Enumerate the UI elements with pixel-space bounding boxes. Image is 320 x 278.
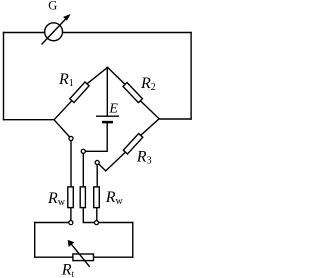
resistor R1 — [70, 82, 89, 103]
resistor R2 — [123, 82, 142, 102]
wire battery bottom lead — [83, 122, 107, 151]
node a terminal — [69, 136, 73, 140]
wire bottom loop right edge — [132, 223, 134, 258]
wire bottom loop top-right segment — [97, 222, 133, 224]
wire Rw1 bottom lead — [70, 206, 72, 223]
node e terminal — [94, 221, 98, 225]
wire bottom loop bottom edge (through Rt) — [35, 256, 133, 258]
resistor R3 — [123, 134, 142, 154]
node b terminal — [81, 149, 85, 153]
wire bottom loop top-left segment — [35, 222, 71, 224]
wire node c to Rw3 — [96, 163, 98, 190]
wire left vertical — [3, 33, 5, 120]
wire node b to Rw2 — [82, 151, 84, 189]
wire right vertical — [190, 33, 192, 120]
svg-text:E: E — [108, 102, 118, 117]
wire R3 diagonal — [97, 119, 159, 171]
wire bridge arm left (through R1) — [54, 67, 108, 119]
resistor Rw1 — [68, 187, 74, 208]
wire Rw2 bottom lead bent — [83, 206, 96, 223]
wire top-right horizontal — [63, 32, 192, 34]
node d terminal — [69, 221, 73, 225]
battery E — [96, 116, 119, 122]
wire node a to Rw1 — [70, 139, 72, 190]
wire bridge-to-right horizontal — [159, 118, 191, 120]
resistor Rw3 — [94, 187, 100, 208]
rheostat Rt — [68, 240, 94, 267]
resistor Rw2 — [80, 187, 85, 208]
galvanometer G — [42, 14, 71, 45]
wire top-left horizontal — [4, 32, 45, 34]
wire Rw3 bottom lead — [96, 206, 98, 223]
wire left vertex to node a — [54, 120, 71, 139]
svg-text:G: G — [48, 0, 57, 13]
node c terminal — [95, 160, 99, 164]
wire bridge arm right (through R2) — [108, 67, 160, 118]
wire left-to-bridge horizontal — [4, 119, 55, 121]
wire bottom loop left edge — [34, 223, 36, 258]
wire battery top lead — [106, 67, 108, 115]
